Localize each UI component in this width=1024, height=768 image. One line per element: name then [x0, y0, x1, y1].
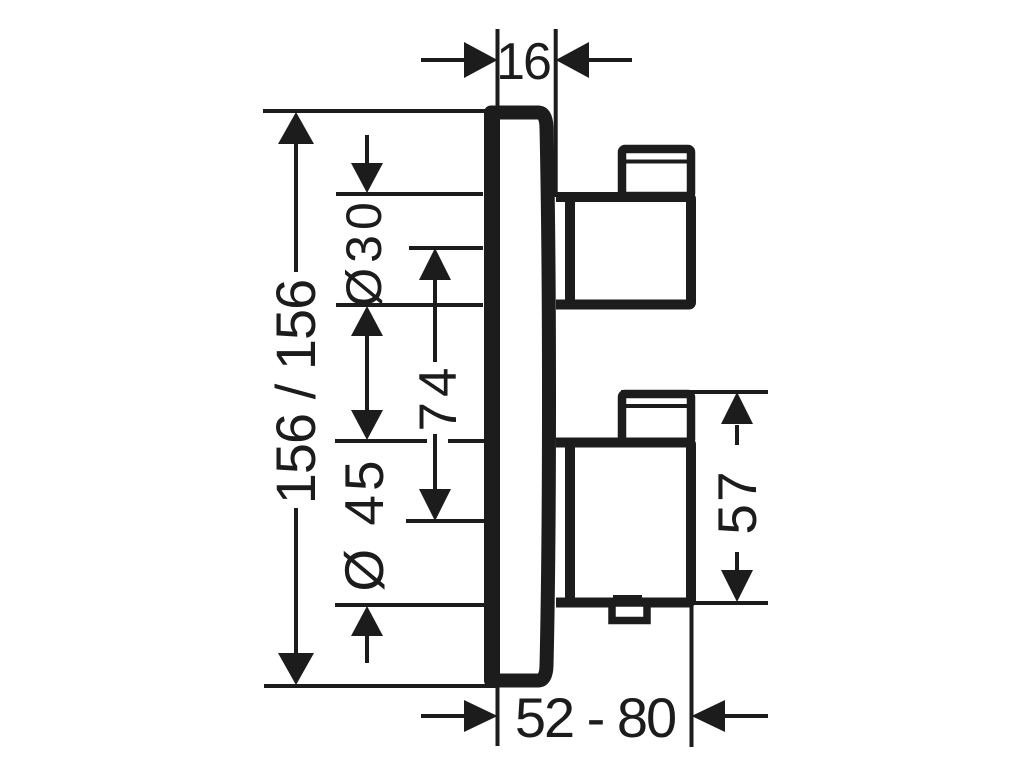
dim 52-80 left shaft: [421, 714, 466, 718]
Ø30 bottom extension line: [336, 303, 483, 307]
dim 16 left arrow: [464, 42, 498, 78]
lower handle cap inner line: [626, 404, 687, 408]
svg-text:156 / 156: 156 / 156: [264, 280, 327, 505]
dim 52-80 right arrow: [692, 700, 726, 732]
dim 74 bottom extension line: [406, 519, 484, 523]
dim 156/156 line lower segment: [294, 508, 298, 654]
dim 57 top arrow: [721, 392, 753, 424]
dim 16 left extension line: [496, 29, 500, 113]
lower handle cap: [622, 394, 691, 442]
lower handle tab bump: [613, 595, 642, 603]
Ø45 top extension line (right of 74 line): [448, 439, 484, 443]
lower handle bottom tab: [612, 603, 647, 621]
Ø45 bottom outside arrow: [351, 606, 383, 636]
dim 156/156 top arrow: [278, 112, 314, 144]
upper handle body bottom edge left stub: [556, 300, 580, 310]
Ø30 bottom outside arrow: [351, 306, 383, 336]
upper handle cap: [622, 149, 691, 196]
svg-text:16: 16: [496, 33, 550, 91]
dim 57 top extension line: [621, 390, 768, 394]
lower handle body: [570, 443, 691, 603]
dim 57 line lower stub: [735, 552, 739, 572]
svg-text:52 - 80: 52 - 80: [515, 686, 675, 749]
svg-text:Ø30: Ø30: [336, 197, 392, 307]
upper handle body top edge left stub: [556, 192, 580, 202]
dim 156/156 top extension line: [263, 109, 497, 113]
dim chain stub below Ø45: [365, 634, 369, 663]
svg-text:74: 74: [409, 363, 468, 432]
dim 16 left shaft: [421, 58, 466, 62]
dim 74 line lower segment: [433, 434, 437, 490]
escutcheon plate (side view): [491, 113, 549, 681]
dim 52-80 right extension line: [690, 605, 694, 747]
Ø30 top extension line: [336, 192, 483, 196]
dim chain stub above Ø30: [365, 135, 369, 166]
chain line between Ø30 and Ø45: [365, 334, 369, 412]
svg-text:Ø 45: Ø 45: [333, 456, 395, 591]
Ø45 top outside arrow: [351, 410, 383, 440]
dim 52-80 left arrow: [464, 700, 498, 732]
dim 156/156 bottom extension line: [264, 684, 497, 688]
upper handle cap inner line: [626, 160, 687, 164]
upper handle body: [570, 197, 691, 305]
plate left edge (thick face): [484, 114, 500, 679]
Ø30 top outside arrow: [351, 163, 383, 193]
dim 74 top arrow: [419, 248, 451, 280]
lower handle body bottom edge left stub: [556, 598, 580, 608]
dim 57 bottom arrow: [721, 570, 753, 602]
Ø45 bottom extension line: [335, 603, 486, 607]
dim 52-80 left extension line: [496, 680, 500, 746]
lower handle body top edge left stub: [556, 438, 580, 448]
dim 16 right shaft: [589, 58, 632, 62]
dim 156/156 line upper segment: [294, 142, 298, 272]
svg-text:57: 57: [706, 469, 768, 534]
dim 16 right extension line: [554, 29, 558, 197]
dim 16 right arrow: [556, 42, 589, 78]
dim 57 line upper stub: [735, 425, 739, 445]
dim 74 top extension line: [409, 246, 483, 250]
dim 156/156 bottom arrow: [278, 653, 314, 685]
dim 57 bottom extension line: [691, 601, 768, 605]
Ø45 top extension line (left of 74 line): [335, 439, 427, 443]
dim 74 line upper segment: [433, 278, 437, 362]
dim 52-80 right shaft: [725, 714, 768, 718]
dim 74 bottom arrow: [419, 489, 451, 521]
